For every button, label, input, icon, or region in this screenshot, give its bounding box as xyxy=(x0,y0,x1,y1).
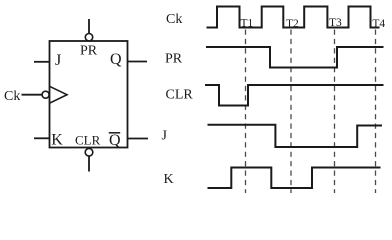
svg-text:Q: Q xyxy=(109,132,121,149)
waveform J xyxy=(208,125,383,147)
svg-text:T3: T3 xyxy=(329,17,342,29)
svg-text:J: J xyxy=(162,129,168,144)
wire Q-bar output stub xyxy=(128,138,149,140)
svg-text:Q: Q xyxy=(110,51,122,68)
wire PR input stub xyxy=(88,19,90,33)
svg-text:Ck: Ck xyxy=(166,12,182,27)
wire J input stub xyxy=(34,61,50,63)
svg-text:T4: T4 xyxy=(372,18,385,30)
svg-text:Ck: Ck xyxy=(4,89,20,104)
waveform K xyxy=(208,168,381,189)
svg-text:T1: T1 xyxy=(241,18,254,30)
dashed line T4 xyxy=(375,30,377,194)
wire Ck input xyxy=(22,94,43,96)
wire K input stub xyxy=(34,137,50,139)
svg-text:CLR: CLR xyxy=(75,133,101,148)
dashed line T1 xyxy=(245,30,247,194)
svg-text:J: J xyxy=(55,52,61,69)
svg-text:PR: PR xyxy=(80,43,98,58)
wire Q output stub xyxy=(128,61,148,63)
svg-text:PR: PR xyxy=(165,51,183,66)
svg-text:T2: T2 xyxy=(286,18,299,30)
waveform PR xyxy=(206,47,384,68)
svg-text:K: K xyxy=(164,172,174,187)
svg-text:K: K xyxy=(51,132,63,149)
dashed line T3 xyxy=(334,30,336,194)
clock triangle xyxy=(50,86,68,103)
wire CLR input stub xyxy=(88,156,90,171)
inversion bubble on Ck xyxy=(42,91,49,98)
dashed line T2 xyxy=(290,30,292,194)
flip-flop body U1 xyxy=(50,41,128,148)
waveform Ck xyxy=(207,7,380,28)
svg-text:CLR: CLR xyxy=(166,88,194,103)
inversion bubble on CLR xyxy=(85,149,93,157)
inversion bubble on PR xyxy=(85,34,92,41)
waveform CLR xyxy=(205,85,384,106)
